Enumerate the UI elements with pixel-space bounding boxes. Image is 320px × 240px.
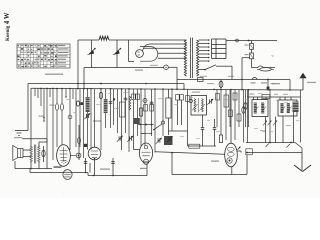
indicator circle at EF9 bottom <box>143 159 148 164</box>
IF can arrows <box>192 104 198 111</box>
wire drop x270 from bus <box>269 90 271 117</box>
wire drop x248 <box>248 90 250 127</box>
resistor beside transformer <box>43 146 45 162</box>
table label column text <box>58 45 69 67</box>
wire drop x133 <box>133 89 135 137</box>
transformer core <box>190 38 192 79</box>
wire speaker top <box>23 149 31 151</box>
label above can 1 <box>192 92 200 93</box>
wire EF9 left exit <box>134 149 140 151</box>
anode wire 2 <box>143 47 186 49</box>
output tube EL11 <box>57 145 71 167</box>
tuning trimmer 1 <box>118 136 120 140</box>
selector switch lever <box>204 69 206 71</box>
wire main bus <box>31 88 303 90</box>
resistor x221 mid <box>219 135 222 143</box>
wire drop x83.5 <box>83 89 85 158</box>
wire drop x217 <box>216 90 218 128</box>
label r1 <box>245 45 249 46</box>
resistor x226 <box>225 90 227 141</box>
label 0.1A <box>150 65 158 66</box>
wire x121 low <box>121 133 123 150</box>
oval on x78 <box>77 101 80 106</box>
regulator lamp 2 <box>114 50 120 55</box>
table caption <box>45 74 63 75</box>
tube socket table grid <box>17 44 70 68</box>
wire right box left edge <box>247 90 249 143</box>
small box on sub bus <box>262 94 270 98</box>
wire drop x285 <box>284 97 286 100</box>
cathode wire 2 <box>158 57 187 59</box>
wire y174.5 right <box>172 174 247 176</box>
label EF9 <box>140 168 147 169</box>
coil zigzag x129 <box>129 96 131 110</box>
wire drop x280 <box>279 97 281 100</box>
wire drop x253.5 <box>253 97 255 100</box>
box x152 <box>150 105 154 112</box>
caps at y128 <box>201 127 205 129</box>
regulator lamp 1 <box>88 50 94 55</box>
small circle x163 <box>162 89 164 136</box>
wire drop x91.5 <box>91 40 93 68</box>
wire drop x117.5 <box>117 89 119 133</box>
cap x112 bottom <box>112 158 114 176</box>
wire top bus <box>78 39 99 41</box>
resistor x239 <box>238 90 240 127</box>
wire antenna to coil <box>22 138 47 140</box>
tall rect x166-171 <box>166 98 171 118</box>
oval resistor x62 <box>60 104 63 110</box>
oval left of box <box>243 90 245 143</box>
wire tube EBF bottom <box>94 160 96 176</box>
link y121 <box>93 120 101 122</box>
wire drop x94.5 <box>94 89 96 148</box>
tube EM4 <box>225 143 238 167</box>
labels above power bus <box>200 76 207 77</box>
wire drop x172 <box>171 89 173 131</box>
wire left drop x31 <box>30 88 32 138</box>
transformer secondary winding <box>197 40 199 76</box>
box pair x176-181 <box>176 95 180 101</box>
wire power bottom bus <box>177 79 290 81</box>
wire drop x291 <box>290 97 292 100</box>
switch lever mid <box>153 129 155 131</box>
wire drop x73 <box>72 89 74 99</box>
label EL11 <box>54 166 62 168</box>
coil block x105 <box>105 89 107 128</box>
label 500 and dot <box>39 116 44 117</box>
box x147 <box>144 105 148 112</box>
cap x110 <box>110 89 112 128</box>
cathode wire 1 <box>158 52 187 54</box>
wire selector output <box>226 40 277 42</box>
resistor on y146 link <box>189 144 200 148</box>
wire antenna drop x28 <box>27 84 29 131</box>
voltage selector ladder <box>211 39 213 59</box>
wire drop x128.5 <box>128 40 130 62</box>
box right of EM <box>246 149 253 155</box>
label AZ11 <box>135 70 143 71</box>
wire drop x62 <box>61 89 63 146</box>
box and circle x187-192 <box>187 89 189 131</box>
labels on sub bus <box>250 94 255 95</box>
junction right of EM <box>246 152 248 154</box>
labels in box <box>260 130 265 131</box>
scan speckle <box>3 2 314 195</box>
resistor x121 <box>121 89 123 133</box>
wire lower bus left <box>30 172 88 174</box>
dark electrolytic <box>293 102 299 113</box>
wire drop x41 <box>40 88 42 106</box>
wire EM right exit <box>237 150 241 152</box>
label Wd <box>50 105 55 106</box>
junction dots y142.5 <box>269 142 271 144</box>
box x217 <box>216 94 220 101</box>
svg-text:Koenig4 W: Koenig4 W <box>4 12 11 41</box>
pilot circle on x70 <box>68 115 72 119</box>
antenna terminal <box>15 130 28 132</box>
link y124.5 with junctions <box>138 124 154 126</box>
can 2 arrows <box>254 107 259 113</box>
oval on x101 <box>100 89 102 150</box>
dark cap x81.5 <box>81 102 84 105</box>
wire mains lower <box>252 67 258 69</box>
wire sub bus y97 <box>248 96 301 98</box>
tuning trimmer 2 <box>129 136 131 140</box>
gang capacitor block <box>164 136 173 145</box>
tube EF9 <box>139 143 152 163</box>
dropper resistor 2 <box>251 49 253 53</box>
oval x243.5 <box>245 90 247 127</box>
wire drop x129 <box>128 89 130 152</box>
wire box bottom links <box>282 116 284 143</box>
wire horizontals mid <box>168 130 187 132</box>
wire bus y152.5 right <box>246 152 302 154</box>
tiny value labels <box>66 92 299 139</box>
wire fuse right <box>168 66 177 68</box>
wire corner to ground <box>295 143 302 153</box>
trimmer right of can 1 <box>209 99 211 103</box>
wire drop x262 <box>261 99 263 100</box>
mains plug <box>260 68 272 71</box>
type badge under EL11 <box>63 170 72 180</box>
wire drop x87.5 coil <box>87 89 89 150</box>
choke Dr on top bus <box>99 36 109 40</box>
wire corner down x290 <box>289 80 291 90</box>
label +a <box>272 83 280 84</box>
grid cap dark blob <box>84 144 87 147</box>
wire x90 to tube <box>89 163 91 173</box>
cap x151 <box>151 89 153 136</box>
wire y146 link <box>187 131 189 146</box>
oval resistor x57 <box>55 104 58 110</box>
fuse on output wire <box>236 39 239 42</box>
bus1 junctions <box>77 83 79 85</box>
svg-text:~: ~ <box>271 54 274 59</box>
junction <box>248 40 250 42</box>
IF transformer can 1 <box>191 96 207 116</box>
fuse ellipse on x221 <box>220 80 222 90</box>
wire drop x38 <box>37 88 39 98</box>
dark block x134-140 <box>134 118 140 124</box>
secondary tap wires <box>199 39 209 41</box>
wire drop x155 <box>154 89 156 152</box>
wire drop x80 <box>79 89 81 147</box>
wire corner bus1 down <box>183 84 185 90</box>
wire upper bus y83.5 <box>28 83 184 85</box>
can 3 arrows <box>281 107 286 113</box>
fuse lamp <box>164 65 169 70</box>
label EBF11 <box>100 169 110 170</box>
labels near mains <box>251 82 256 83</box>
marker disc <box>76 153 81 158</box>
coil block x87 <box>86 97 90 112</box>
wire transformer top <box>30 139 32 147</box>
wire drop x266 <box>265 97 267 100</box>
wire drop x91 <box>90 89 92 150</box>
small arrow NE <box>238 147 241 151</box>
tube EBF11 <box>88 147 101 160</box>
wire drop x117 <box>116 40 118 68</box>
wire bus y142.5 <box>246 142 295 144</box>
wire drop x53 <box>52 88 54 160</box>
wire dropper to main bus <box>267 80 269 90</box>
junctions lower <box>85 172 87 174</box>
tuning trimmer 3 <box>157 138 159 142</box>
cap x125 <box>125 89 127 133</box>
mid verticals in box <box>265 117 267 143</box>
trimmer arrows mid <box>263 121 267 126</box>
wire right box right edge <box>300 90 302 143</box>
resistor x235 <box>234 90 236 140</box>
table cell marks <box>17 45 56 67</box>
resistor x141 <box>140 89 142 146</box>
B+ arrow <box>302 77 304 91</box>
trimmer under coil x87 <box>86 114 88 118</box>
bus junctions <box>40 88 291 91</box>
label 6x4 <box>207 83 214 84</box>
wire lower bus jog <box>87 173 89 176</box>
wire drop x177 <box>176 67 178 89</box>
wire EM top <box>230 90 232 144</box>
switch hump <box>252 77 257 79</box>
label r2 <box>245 54 249 55</box>
wire bottom speaker links <box>15 168 52 170</box>
wire left drop x78 <box>77 40 79 89</box>
wire drop x257.5 <box>257 97 259 100</box>
eye circle <box>227 158 232 163</box>
label right of B+ arrow <box>307 82 316 83</box>
rectifier envelope <box>140 47 158 62</box>
label antenna <box>14 137 22 138</box>
resistor on bus <box>198 78 204 82</box>
rectifier tube circle <box>136 50 144 58</box>
loudspeaker <box>18 149 23 158</box>
wire drop x113.5 <box>113 89 115 125</box>
wire drop x57 <box>56 89 58 148</box>
wire drop x137 <box>137 89 139 136</box>
small box pair on bus <box>132 94 136 100</box>
wire drop x50 <box>49 88 51 97</box>
IF can 2 <box>252 100 268 117</box>
wire drop x70 <box>69 89 71 151</box>
junction mark x114 <box>113 98 115 100</box>
anode wire 1 <box>143 44 187 51</box>
junction on bus <box>267 79 269 81</box>
wire drop x47 <box>46 88 48 142</box>
oval small x79 <box>78 125 80 160</box>
tuning trimmer 4 <box>168 137 170 141</box>
wire EM bottom <box>231 167 233 175</box>
ground arrow <box>294 165 311 172</box>
dropper resistor 1 <box>251 41 253 44</box>
transformer primary winding <box>184 40 186 76</box>
resistor x230 <box>229 90 231 128</box>
IF can 3 <box>278 100 297 116</box>
cap x85 bottom <box>85 158 87 173</box>
lamp circle x145 <box>144 89 146 146</box>
wire drop x66 <box>65 89 67 98</box>
wire drop x221 down <box>220 90 222 136</box>
wire x242 drop <box>242 57 250 59</box>
output transformer windings <box>30 146 32 162</box>
wire drop x76 <box>75 89 77 147</box>
wire y152.5 long <box>155 152 225 155</box>
wire heater line <box>84 67 164 69</box>
wire drop x35 <box>34 88 36 96</box>
tick arrows on bus <box>266 144 269 148</box>
wire drop x44 <box>43 88 45 121</box>
label EM4 <box>211 161 219 162</box>
